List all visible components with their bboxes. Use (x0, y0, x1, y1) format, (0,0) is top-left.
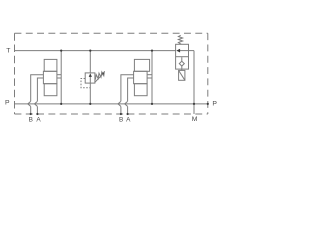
manifold block boundary top edge (dashed) (15, 32, 208, 34)
node port B1 (30, 113, 32, 115)
node P junction V2 (151, 103, 153, 105)
node port B2 (120, 113, 122, 115)
node P junction DB1 (89, 103, 91, 105)
T line (15, 50, 176, 52)
solenoid coil WV1 (179, 70, 185, 80)
valve V1 top box (44, 59, 57, 71)
solenoid valve WV1 spring (178, 35, 182, 44)
arrowhead WV1 flow arrow (176, 49, 180, 53)
node port A1 (36, 113, 38, 115)
wire DB1 to T line (89, 51, 91, 73)
hop V2 B line over P line (118, 101, 121, 106)
hop V1 B line over P line (28, 101, 31, 106)
wire V1 T-P riser (60, 51, 62, 104)
orifice stub lower WV1 (181, 66, 183, 69)
relief valve DB1 body (85, 73, 95, 83)
arrowhead DB1 spring arrow (102, 72, 104, 74)
pilot line DB1 (dashed) (81, 79, 90, 88)
wire V1 stub to riser upper (57, 74, 61, 76)
hop V1 A line over P line (35, 101, 38, 106)
svg-text:M: M (192, 116, 198, 123)
wire V2 port B drop below hop (120, 107, 122, 115)
wire V2 port A stub (128, 78, 134, 101)
svg-text:P: P (212, 101, 217, 108)
solenoid valve WV1 body (176, 44, 189, 69)
adjustment arrow DB1 (95, 74, 103, 82)
orifice diamond WV1 (179, 61, 184, 66)
wire DB1 to P line and arrow shaft (89, 76, 91, 104)
valve V2 top box (134, 59, 149, 71)
node T junction V2 (151, 50, 153, 52)
node port A2 (127, 113, 129, 115)
wire V1 port A stub (37, 78, 43, 101)
wire V2 port A drop below hop (127, 107, 129, 115)
wire V2 port B stub (121, 75, 134, 102)
valve V1 bottom box (44, 84, 57, 96)
node T junction DB1 (89, 50, 91, 52)
wire valve to solenoid coil (181, 69, 183, 70)
node P junction WV1 (193, 103, 195, 105)
valve V1 middle box (43, 71, 57, 83)
orifice stub upper WV1 (181, 57, 183, 61)
solenoid coil diagonal WV1 (179, 70, 185, 80)
wire V1 stub to riser lower (57, 77, 61, 79)
valve V2 middle box (134, 71, 148, 83)
P line (15, 103, 208, 105)
svg-text:A: A (36, 116, 41, 123)
svg-text:B: B (29, 116, 33, 123)
wire WV1 outlet to P line and M port (193, 51, 195, 114)
wire V2 T-P riser (151, 51, 153, 104)
node T junction V1 (60, 50, 62, 52)
wire V1 port B drop below hop (30, 107, 32, 115)
manifold block boundary bottom edge (dashed) (15, 113, 208, 115)
node port P right (207, 103, 209, 105)
svg-text:T: T (6, 48, 10, 55)
svg-text:B: B (119, 116, 123, 123)
svg-text:A: A (126, 116, 131, 123)
manifold block boundary left edge (dashed) (14, 33, 16, 114)
wire V1 port B stub (31, 75, 44, 102)
wire V1 port A drop below hop (36, 107, 38, 115)
arrowhead DB1 relief arrow (89, 73, 92, 77)
flow arrow WV1 shaft (179, 50, 194, 52)
hop V2 A line over P line (125, 101, 128, 106)
node P junction V1 (60, 103, 62, 105)
solenoid valve WV1 position divider (176, 56, 189, 58)
wire V2 stub to riser lower (147, 77, 152, 79)
spring DB1 (95, 71, 104, 80)
wire V2 stub to riser upper (147, 74, 152, 76)
manifold block boundary right edge (dashed) (207, 33, 209, 114)
valve V2 bottom box (134, 84, 147, 96)
svg-text:P: P (5, 99, 10, 106)
